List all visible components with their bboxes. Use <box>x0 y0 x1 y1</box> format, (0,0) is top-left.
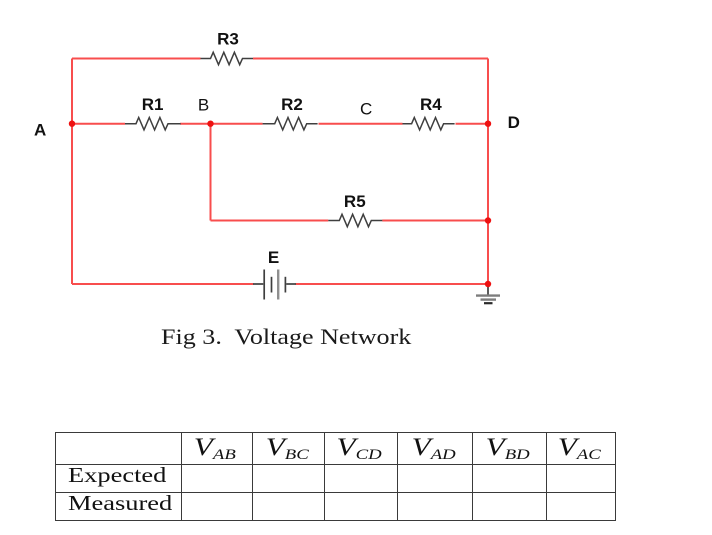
svg-text:R2: R2 <box>281 95 303 114</box>
svg-text:R5: R5 <box>344 192 366 211</box>
svg-text:D: D <box>508 113 520 132</box>
svg-text:R4: R4 <box>420 95 442 114</box>
svg-text:B: B <box>198 96 209 115</box>
svg-text:E: E <box>268 248 279 267</box>
svg-text:R3: R3 <box>217 29 239 48</box>
svg-text:R1: R1 <box>142 95 164 114</box>
svg-text:A: A <box>34 120 46 139</box>
svg-text:C: C <box>360 99 372 118</box>
